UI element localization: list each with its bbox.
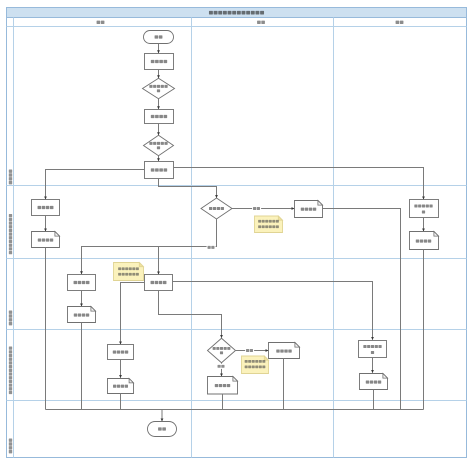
document 退款关闭(阶段4) [108, 379, 134, 394]
title text 退货退款(物流)类型流程图 [209, 11, 264, 15]
wire 退货退款→选择退货方式 [157, 124, 160, 136]
end node 结束 [148, 422, 177, 437]
wire 用户退货→平台介入(阶段4) [173, 282, 374, 341]
document 退款失败(阶段4) [269, 343, 300, 359]
lane divider 用户/商家 [191, 18, 193, 458]
process 用户撤销(阶段2) [32, 200, 60, 216]
wire 商家确认收货-通过→退款成功 [220, 363, 223, 377]
label 拒绝(阶段4) [245, 348, 254, 353]
phase label 售后完成 [9, 439, 12, 454]
wire 退款关闭(阶段2)→汇流 [45, 248, 47, 410]
document 退款关闭(阶段2) [32, 232, 60, 248]
decision 选择售后类型 [143, 78, 175, 99]
phase divider 2 [7, 258, 467, 260]
note 商家审核超时需要输入理由(阶段2) [255, 216, 283, 233]
wire 平台介入退款→退款成功(阶段4) [371, 358, 374, 374]
header bottom line [7, 26, 467, 28]
wire 用户撤销→退款关闭(阶段4) [119, 360, 122, 379]
process 用户撤销(阶段3) [68, 275, 96, 291]
process 用户撤销(阶段4) [108, 345, 134, 360]
document 退款成功(阶段4右) [360, 374, 388, 390]
decision 商家审核 [201, 198, 232, 219]
phase label 商家审核/平台介入阶段 [9, 214, 12, 254]
label strip divider [13, 18, 15, 458]
process 平台介入退款(阶段4) [359, 341, 387, 358]
header label 商家 [257, 21, 265, 24]
wire 用户退货→用户撤销(阶段4) [119, 283, 144, 345]
wire 平台介入退款→退款成功(阶段2) [422, 218, 425, 232]
decision 选择退货方式 [144, 135, 174, 156]
phase label 商家确认收货/平台介入阶段 [9, 347, 12, 395]
document 退款关闭(阶段3) [68, 307, 96, 323]
wire 提交退货→商家审核 [159, 179, 218, 199]
wire 商家审核-通过→下一阶段 [80, 219, 216, 274]
process 退货退款 [145, 110, 174, 124]
wire 选择退货方式→提交退货 [157, 156, 160, 161]
decision 商家确认收货 [208, 338, 236, 363]
wire 商家确认收货-拒绝→退款失败 [236, 349, 269, 352]
wire 退款成功(阶段4中)→汇流 [222, 394, 224, 410]
wire 通过→用户退货(分岔) [157, 247, 160, 275]
note 商家审核超时需要输入理由(阶段4) [242, 356, 269, 374]
phase divider 4 [7, 400, 467, 402]
label 通过(阶段2) [207, 245, 216, 250]
wire 退款失败(阶段4)→汇流 [283, 359, 285, 410]
wire 提交退货→平台介入(右) [174, 168, 425, 200]
wire 选择售后类型→退货退款 [157, 99, 160, 109]
document 退款失败(阶段2) [295, 201, 323, 218]
header label 用户 [97, 21, 105, 24]
phase label 提交申请 [9, 170, 12, 185]
wire 用户撤销→退款关闭(阶段3) [80, 291, 83, 307]
process 提交退货 [145, 162, 174, 179]
process 平台介入退款(阶段2) [410, 200, 439, 218]
wire 汇流→结束 [161, 410, 164, 422]
wire 退款成功(阶段2)→汇流 [423, 250, 425, 410]
document 退款成功(阶段2) [410, 232, 439, 250]
title bar [7, 8, 467, 18]
wire 开始→售后申请 [157, 44, 160, 54]
phase label 用户退货 [9, 311, 12, 326]
process 售后申请 [145, 54, 174, 70]
wire 退款失败(阶段2)→汇流 [323, 209, 401, 410]
wire 退款关闭(阶段4)→汇流 [120, 394, 122, 410]
document 退款成功(阶段4中) [208, 377, 238, 395]
wire 用户撤销→退款关闭(阶段2) [44, 216, 47, 232]
wire 退款成功(阶段4右)→汇流 [373, 390, 375, 410]
wire 商家审核-拒绝→退款失败 [232, 207, 295, 210]
header label 平台 [396, 21, 404, 24]
label 通过(阶段4) [217, 364, 226, 369]
wire 退款关闭(阶段3)→汇流 [81, 323, 83, 410]
wire 汇流总线 [46, 409, 424, 411]
note 用户退货需要填写物流信息 [114, 263, 144, 281]
wire 售后申请→选择售后类型 [157, 70, 160, 79]
wire 用户退货→商家确认收货 [159, 291, 223, 339]
process 用户退货 [145, 275, 173, 291]
phase divider 1 [7, 185, 467, 187]
phase divider 3 [7, 329, 467, 331]
label 拒绝(阶段2) [252, 206, 261, 211]
lane divider 商家/平台 [333, 18, 335, 458]
start node 开始 [144, 31, 174, 44]
wire 提交退货→用户撤销(左) [44, 170, 144, 200]
